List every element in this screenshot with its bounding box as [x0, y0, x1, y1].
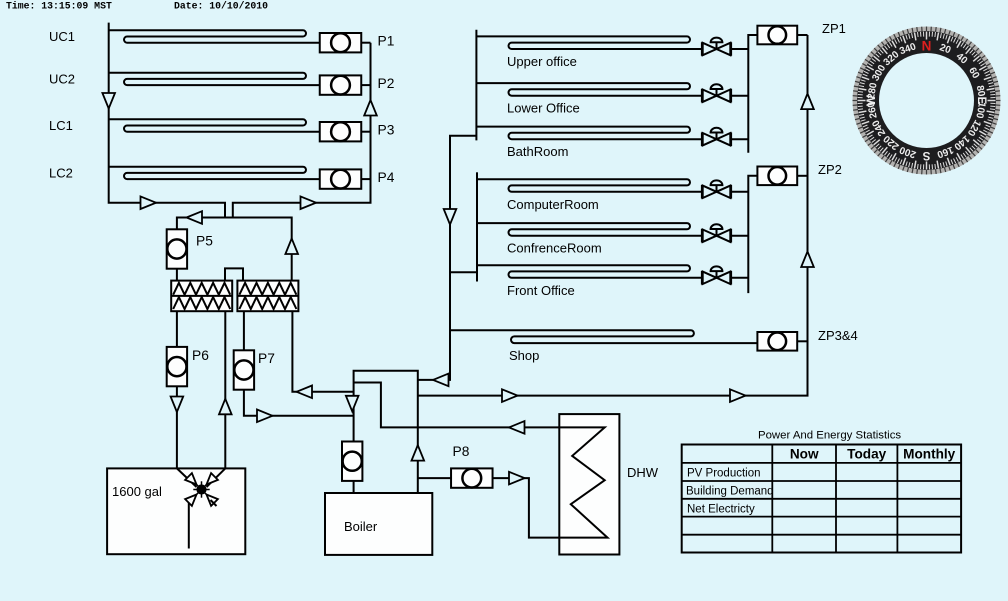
- wire zone return trunk: [418, 136, 450, 380]
- svg-text:P2: P2: [378, 76, 395, 91]
- tank 1600 gal: [107, 468, 245, 554]
- arrow up from tank: [219, 399, 232, 415]
- pump P2: [361, 84, 371, 86]
- pump boiler loop: [342, 442, 362, 481]
- wire valve to drop pipe: [731, 95, 748, 97]
- wire boiler loop left riser: [354, 371, 418, 493]
- wire zone supply line: [418, 35, 808, 396]
- valve ComputerRoom: [701, 185, 703, 199]
- pump P4: [361, 178, 371, 180]
- svg-text:LC2: LC2: [49, 165, 73, 180]
- arrow right toward header: [301, 196, 317, 209]
- wire left collector header: [109, 23, 225, 218]
- wire HX2 riser: [291, 217, 293, 282]
- pump P5: [167, 229, 187, 268]
- svg-text:Lower Office: Lower Office: [507, 101, 580, 116]
- svg-text:Today: Today: [847, 447, 886, 462]
- svg-text:Net Electricty: Net Electricty: [687, 503, 755, 515]
- svg-text:P4: P4: [378, 170, 395, 185]
- svg-text:P5: P5: [196, 234, 213, 249]
- wire valve to drop pipe: [731, 235, 748, 237]
- arrow left toward HX2: [297, 386, 313, 399]
- wire ZP1 drop pipe: [748, 35, 757, 153]
- zone pump ZP2: [757, 167, 797, 186]
- svg-text:1600 gal: 1600 gal: [112, 484, 162, 499]
- collector UC1: [109, 30, 320, 42]
- svg-text:ConfrenceRoom: ConfrenceRoom: [507, 241, 602, 256]
- collector UC2: [109, 73, 320, 85]
- svg-text:Time: 13:15:09 MST: Time: 13:15:09 MST: [6, 1, 112, 12]
- wire upper zone header: [475, 30, 477, 141]
- heat exchanger HX2: [237, 281, 298, 312]
- arrow up on boiler right pipe: [412, 445, 425, 461]
- svg-text:Date: 10/10/2010: Date: 10/10/2010: [174, 1, 268, 12]
- svg-text:Building Demand: Building Demand: [686, 486, 774, 498]
- arrow right after P8: [509, 472, 525, 485]
- pump P3: [361, 131, 371, 133]
- arrow up on supply riser 2: [801, 252, 814, 268]
- svg-text:BathRoom: BathRoom: [507, 144, 568, 159]
- wire valve to drop pipe: [731, 48, 748, 50]
- svg-text:UC1: UC1: [49, 29, 75, 44]
- pump P1: [361, 42, 371, 44]
- radiator ComputerRoom: [477, 179, 702, 192]
- wire HX1 right down to tank: [224, 311, 226, 468]
- svg-text:P6: P6: [192, 348, 209, 363]
- valve ConfrenceRoom: [701, 229, 703, 243]
- arrow left on DHW return: [509, 421, 525, 434]
- svg-text:Front Office: Front Office: [507, 283, 575, 298]
- wire HX2 right return: [292, 311, 353, 392]
- arrow down to tank: [171, 397, 184, 413]
- svg-text:S: S: [922, 149, 930, 161]
- arrow up on HX2 riser: [285, 239, 298, 255]
- valve Upper office: [701, 42, 703, 56]
- svg-text:P8: P8: [453, 444, 470, 459]
- arrow up on supply riser 1: [801, 94, 814, 110]
- wire valve to drop pipe: [731, 277, 748, 279]
- radiator Front Office: [477, 265, 702, 278]
- radiator Shop: [450, 330, 758, 343]
- valve Front Office: [701, 271, 703, 285]
- arrow up on right header: [364, 100, 377, 116]
- svg-text:N: N: [922, 39, 932, 54]
- radiator Lower Office: [476, 83, 702, 96]
- wire ZP2 drop pipe: [748, 176, 757, 293]
- zone pump ZP1: [757, 26, 797, 45]
- tank diffuser symbol: [177, 468, 225, 548]
- svg-text:DHW: DHW: [627, 465, 659, 480]
- svg-text:ComputerRoom: ComputerRoom: [507, 197, 599, 212]
- wire P8 supply to DHW: [418, 478, 559, 537]
- svg-text:P1: P1: [378, 34, 395, 49]
- svg-text:ZP3&4: ZP3&4: [818, 328, 858, 343]
- arrow left into boiler loop: [433, 374, 449, 387]
- heat exchanger HX1: [171, 281, 232, 312]
- arrow down on boiler left pipe: [346, 396, 359, 412]
- radiator Upper office: [476, 36, 702, 49]
- zone pump ZP3&4: [757, 332, 797, 351]
- wire P5 drop: [176, 217, 178, 282]
- svg-text:UC2: UC2: [49, 71, 75, 86]
- arrow down on left header: [102, 93, 115, 109]
- arrow down on trunk: [444, 209, 457, 225]
- wire upper header jog: [449, 135, 476, 137]
- arrow right on header bottom wire: [141, 196, 157, 209]
- svg-text:Power And Energy Statistics: Power And Energy Statistics: [758, 430, 901, 442]
- pump P6: [167, 347, 187, 386]
- arrow right to boiler loop: [257, 410, 273, 423]
- svg-text:PV Production: PV Production: [687, 468, 761, 480]
- radiator ConfrenceRoom: [477, 223, 702, 236]
- valve BathRoom: [701, 132, 703, 146]
- collector LC2: [109, 167, 320, 179]
- svg-text:ZP2: ZP2: [818, 162, 842, 177]
- arrow right on supply 1: [502, 389, 518, 402]
- boiler: [325, 493, 432, 555]
- wire DHW return L-path: [354, 383, 559, 428]
- svg-text:P7: P7: [258, 351, 275, 366]
- arrow left toward P5: [187, 211, 203, 224]
- collector LC1: [109, 119, 320, 131]
- pump P8: [451, 468, 493, 487]
- svg-text:Shop: Shop: [509, 348, 539, 363]
- wire right collector header: [233, 43, 371, 218]
- wire valve to drop pipe: [731, 191, 748, 193]
- svg-text:LC1: LC1: [49, 118, 73, 133]
- svg-text:P3: P3: [378, 123, 395, 138]
- wire solar loop mixing line: [177, 217, 292, 219]
- table power and energy statistics: [682, 445, 961, 553]
- svg-text:Upper office: Upper office: [507, 54, 577, 69]
- wire lower zone header: [476, 172, 478, 281]
- wire HX1-HX2 bridge: [225, 268, 243, 280]
- wire HX2 left down through P7: [244, 311, 354, 416]
- svg-text:Monthly: Monthly: [903, 447, 956, 462]
- DHW heat exchanger: [559, 414, 619, 554]
- wire HX1 left down to tank: [176, 311, 178, 468]
- radiator BathRoom: [476, 127, 702, 140]
- arrow right on supply 2: [730, 389, 746, 402]
- pump P7: [234, 350, 254, 389]
- valve Lower Office: [701, 89, 703, 103]
- svg-text:ZP1: ZP1: [822, 21, 846, 36]
- compass rose: [853, 27, 1001, 175]
- svg-text:Boiler: Boiler: [344, 519, 378, 534]
- wire lower header jog: [449, 271, 477, 273]
- wire valve to drop pipe: [731, 138, 748, 140]
- svg-text:Now: Now: [790, 447, 819, 462]
